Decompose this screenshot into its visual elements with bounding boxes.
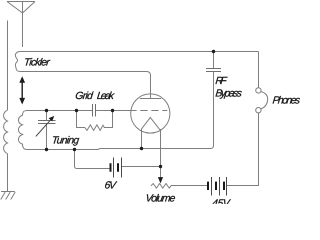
svg-text:Tickler: Tickler <box>23 57 50 68</box>
svg-text:RF: RF <box>215 76 228 87</box>
svg-text:Grid: Grid <box>75 91 95 102</box>
svg-text:Phones: Phones <box>272 95 300 106</box>
svg-text:45V: 45V <box>211 198 231 204</box>
svg-text:6V: 6V <box>104 181 118 192</box>
svg-text:Leak: Leak <box>96 91 115 102</box>
svg-text:Volume: Volume <box>145 194 176 204</box>
svg-text:Bypass: Bypass <box>215 89 243 100</box>
svg-text:Tuning: Tuning <box>51 135 80 146</box>
